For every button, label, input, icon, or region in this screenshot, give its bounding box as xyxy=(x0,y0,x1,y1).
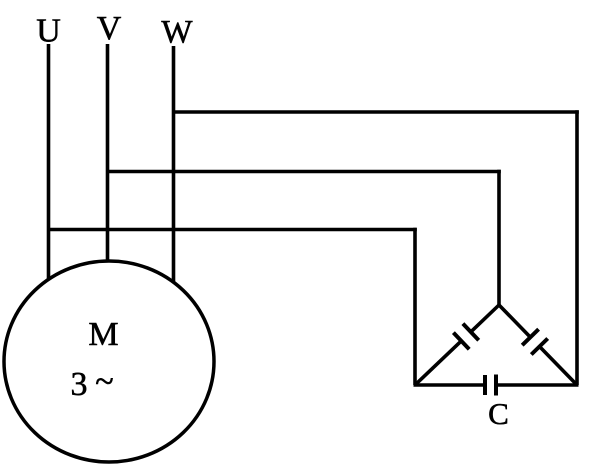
node W label xyxy=(161,15,193,51)
wire V middle vertical to delta apex xyxy=(497,170,501,305)
capacitor C right leg wire from apex xyxy=(499,305,530,337)
wire U horizontal branch xyxy=(47,228,417,232)
wire V horizontal branch xyxy=(106,170,501,174)
svg-text:V: V xyxy=(97,10,122,47)
svg-text:3: 3 xyxy=(71,366,88,403)
wire V vertical to motor xyxy=(106,44,110,262)
wire right leg lower xyxy=(540,347,578,386)
wire W vertical to motor xyxy=(172,46,176,283)
wire left leg lower xyxy=(415,341,461,385)
capacitor C right leg plates xyxy=(522,329,548,354)
svg-text:C: C xyxy=(488,396,509,431)
capacitor C left leg plates xyxy=(453,324,478,350)
wire W horizontal branch xyxy=(172,110,579,114)
motor label 3~ xyxy=(71,364,114,404)
wire U vertical to motor xyxy=(47,44,51,280)
svg-text:W: W xyxy=(161,15,193,51)
wire W right vertical xyxy=(575,110,579,385)
wire delta bottom right segment xyxy=(496,383,579,387)
motor label M xyxy=(88,316,118,353)
svg-text:M: M xyxy=(88,316,118,353)
wire U left vertical to delta left vertex xyxy=(413,228,417,385)
wire delta bottom left segment xyxy=(414,383,486,387)
svg-text:U: U xyxy=(36,13,61,50)
capacitor C bottom plates xyxy=(485,375,496,396)
capacitor C left leg wire from apex xyxy=(471,305,499,332)
svg-text:~: ~ xyxy=(95,364,113,401)
capacitor label C xyxy=(488,396,509,431)
motor M1 circle xyxy=(4,261,214,462)
node U label xyxy=(36,13,61,50)
node V label xyxy=(97,10,122,47)
